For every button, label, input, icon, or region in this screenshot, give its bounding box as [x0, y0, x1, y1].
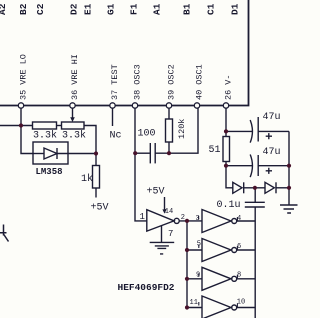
svg-text:7: 7 — [168, 229, 173, 239]
svg-text:5: 5 — [197, 241, 201, 249]
svg-text:9: 9 — [196, 272, 200, 280]
svg-text:47u: 47u — [263, 147, 281, 158]
svg-text:10: 10 — [237, 299, 245, 307]
svg-text:C2: C2 — [35, 3, 46, 15]
svg-text:1: 1 — [140, 212, 145, 222]
svg-text:1k: 1k — [81, 173, 93, 185]
svg-text:100: 100 — [138, 129, 156, 140]
svg-text:37 TEST: 37 TEST — [110, 64, 120, 100]
svg-text:B2: B2 — [18, 3, 29, 15]
svg-text:F1: F1 — [129, 3, 140, 15]
svg-text:36 VRE HI: 36 VRE HI — [70, 54, 80, 100]
svg-text:120k: 120k — [177, 119, 187, 139]
svg-text:+5V: +5V — [147, 187, 165, 198]
svg-text:35 VRE LO: 35 VRE LO — [19, 54, 29, 100]
svg-text:E1: E1 — [83, 3, 94, 15]
svg-text:A2: A2 — [0, 3, 8, 15]
svg-text:D2: D2 — [69, 3, 80, 15]
svg-text:3: 3 — [196, 215, 200, 223]
svg-text:Nc: Nc — [110, 131, 122, 142]
svg-text:HEF4069FD2: HEF4069FD2 — [118, 282, 175, 293]
svg-text:38 OSC3: 38 OSC3 — [133, 64, 143, 100]
svg-text:+5V: +5V — [91, 203, 109, 214]
svg-text:B1: B1 — [182, 3, 193, 15]
svg-text:14: 14 — [165, 208, 173, 216]
svg-text:3.3k: 3.3k — [62, 130, 86, 142]
svg-text:26 V-: 26 V- — [224, 74, 234, 100]
svg-text:C1: C1 — [206, 3, 217, 15]
svg-text:3.3k: 3.3k — [33, 130, 57, 142]
svg-text:11: 11 — [190, 299, 198, 307]
svg-text:39 OSC2: 39 OSC2 — [167, 64, 177, 100]
svg-text:40 OSC1: 40 OSC1 — [195, 64, 205, 100]
svg-text:8: 8 — [237, 272, 241, 280]
svg-text:4: 4 — [237, 215, 241, 223]
svg-text:G1: G1 — [106, 3, 117, 15]
svg-text:A1: A1 — [152, 3, 163, 15]
svg-text:6: 6 — [237, 243, 241, 251]
svg-text:51: 51 — [209, 145, 221, 156]
svg-text:D1: D1 — [230, 3, 241, 15]
svg-text:0.1u: 0.1u — [217, 200, 241, 211]
svg-text:2: 2 — [181, 214, 185, 222]
svg-text:LM358: LM358 — [36, 167, 63, 177]
svg-text:47u: 47u — [263, 112, 281, 123]
